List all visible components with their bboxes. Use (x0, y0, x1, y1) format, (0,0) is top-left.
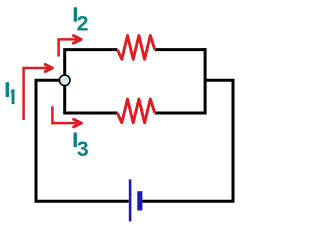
arrowhead of I1 (45, 64, 52, 71)
resistor R1 (top branch zigzag) (117, 36, 154, 60)
current arrow I3 (elbow down then right, into bottom branch) (52, 106, 77, 123)
resistor R2 (bottom branch zigzag) (117, 99, 154, 123)
arrowhead of I3 (74, 119, 82, 127)
label I3 (current through bottom branch) (74, 133, 89, 161)
wire: top branch right segment (R1 to inner right vertical) (155, 48, 205, 51)
wire: inner right vertical joining branches (204, 48, 207, 114)
wire: outer loop left side (node to left, down, along bottom to battery) (36, 80, 129, 201)
current arrow I1 (elbow up then right, pointing at node) (24, 68, 49, 120)
node A (junction dot where I1 splits into I2 and I3) (59, 75, 70, 86)
arrowhead of I2 (73, 36, 81, 44)
svg-text:3: 3 (77, 137, 89, 161)
wire: outer loop right side (battery to right, up, stub to parallel block) (142, 80, 233, 201)
label I1 (total current) (6, 82, 15, 104)
svg-text:2: 2 (77, 12, 89, 36)
wire: bottom branch left segment (R2 to node) (65, 80, 118, 113)
current arrow I2 (elbow up then right, into top branch) (59, 39, 78, 56)
wire: bottom branch right segment (inner right vertical to resistor R2) (155, 112, 205, 115)
label I2 (current through top branch) (74, 7, 89, 35)
battery V1: short thick negative plate (137, 191, 142, 210)
wire: top branch left segment (node up and right to resistor R1) (65, 50, 118, 81)
battery V1: long thin positive plate (129, 179, 132, 221)
